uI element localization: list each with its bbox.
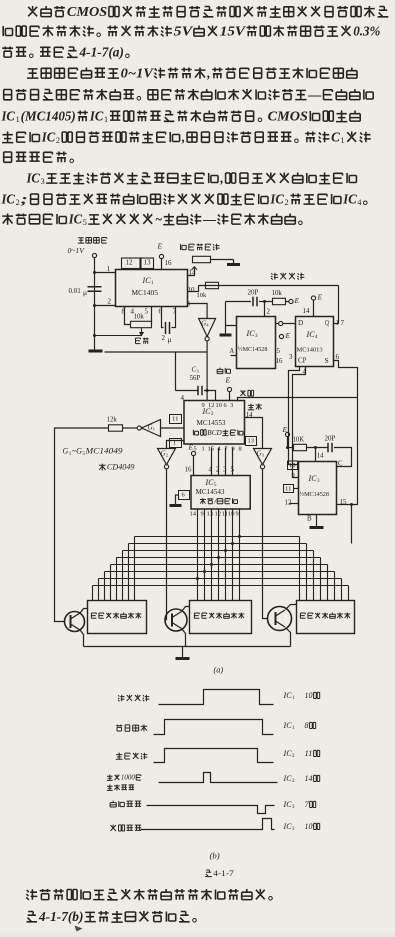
ground G4b [310,526,324,529]
potentiometer zero-adjust 10k [131,321,152,327]
flip-flop IC4 MC14013 [296,317,334,367]
pin 11 label IC5 bottom [222,510,229,517]
pin 10 label IC5 bottom [228,510,235,517]
label 0~1V [68,246,86,255]
capacitor 0.01u [88,287,102,292]
svg-text:14: 14 [303,307,311,315]
svg-text:½MC14528: ½MC14528 [238,346,267,353]
svg-text:E: E [156,242,162,251]
waveform trace5 IC3 pin7 [147,806,275,814]
svg-text:(b): (b) [210,851,220,861]
label E4 [284,331,290,340]
node: analog input label [78,238,107,244]
svg-text:2: 2 [285,198,289,207]
LED display DS3 [297,601,355,634]
LED display DS2 [190,601,252,634]
svg-text:10: 10 [216,402,223,409]
pin 15 label IC2 bottom [208,445,215,452]
capacitor 20P (C2) [253,297,257,307]
pin 14 label IC4 [303,307,311,315]
pin 9 label IC5 bottom [236,510,239,517]
label trace1 ramp control [118,695,149,702]
pin 2 label IC3a [267,308,271,316]
svg-text:1: 1 [341,136,345,145]
pin 14 label IC5 bottom [190,510,197,517]
pin box 10 IC3b [288,461,298,470]
scan smudge [75,926,83,932]
bus drop display3 seg5 [327,565,329,601]
svg-text:C: C [331,129,340,144]
bus drop display1 seg7 [98,579,100,601]
wire pin15 down [351,505,353,544]
wire E6 to IC2 pin6 [229,392,231,401]
pin 15 label IC3b [340,498,348,506]
bus line 8 [93,585,349,587]
wire IC3b gnd stem [316,515,318,527]
waveform trace4 IC2 pin14 [159,773,278,783]
bus drop display1 seg8 [92,586,94,601]
svg-text:IC: IC [282,721,292,730]
wire input lower [94,273,96,306]
svg-text:0~1V: 0~1V [121,65,155,80]
wire lineB to IC3a left [226,302,237,326]
wire IC5 segment 4 to display2 [218,509,220,601]
wire IC4 S loop [334,361,358,398]
wire ramp control line [199,285,339,287]
svg-text:3: 3 [197,369,199,374]
pin 1 label [107,265,111,273]
svg-text:;: ; [21,191,28,206]
wire IC4 CP to IC3b pin10 [289,367,300,465]
bus drop display1 seg4 [116,558,118,601]
wire Q2 base [165,619,167,621]
svg-text:12: 12 [208,402,215,409]
wire G2 to Q2 base [166,469,168,620]
wire 20P to C pin [334,448,352,467]
svg-text:1: 1 [202,445,205,452]
pin 14 label IC3b [317,452,325,460]
terminal E1 [159,254,163,258]
ground G5 [170,504,182,507]
pin 7 label [173,308,177,316]
svg-text:2: 2 [162,334,166,342]
pin 14 label IC2 [246,411,254,419]
svg-text:13: 13 [248,437,255,444]
svg-text:8: 8 [239,445,242,452]
wire reset down to pin15 [337,398,358,505]
pin 10 label [188,286,196,294]
wire stub 12 [290,503,299,505]
svg-text:2: 2 [166,453,168,458]
svg-text:9: 9 [236,510,239,517]
svg-text:4: 4 [209,466,213,474]
terminal Q IC3a [279,321,283,325]
svg-text:IC: IC [305,330,315,339]
bus line 7 [99,578,342,580]
wire pin3 to G4 [188,304,208,319]
wire pin7 to cap [172,307,176,328]
label IC1 10pin [282,691,319,701]
wire IC2 to G2 [167,441,185,449]
svg-text:1: 1 [107,265,111,273]
capacitor 20P right [328,443,332,453]
pin 5 label IC3a [277,347,281,355]
resistor 10k ramp [206,282,219,288]
svg-text:4-1-7: 4-1-7 [213,868,234,878]
wire pin10 to ramp line [188,286,199,292]
potentiometer full-scale 滿度 [193,256,211,262]
svg-text:4-1-7(a): 4-1-7(a) [78,44,123,59]
svg-text:G: G [257,450,262,458]
svg-text:~: ~ [155,211,162,226]
wire emitter bus [84,646,291,648]
pin 1 label IC4 [336,319,340,327]
svg-text:A: A [230,347,235,355]
pin B label IC3b [307,514,312,523]
wire pot gnd stem [233,260,235,264]
label E5 [281,425,287,434]
figure caption 4-1-7 [205,868,234,878]
ground G2 [227,263,240,266]
wire IC2 to G1 [161,427,185,429]
wire IC5 segment 6 to display2 [232,509,234,601]
svg-text:0~1V: 0~1V [68,246,86,255]
wire pin5 to pot [151,307,153,325]
pin 8 label [122,308,126,316]
wire pin14 to pot wiper [188,267,195,276]
wire E5 to 10K [288,447,294,449]
svg-text:56P: 56P [190,374,201,382]
svg-text:IC: IC [41,129,56,144]
label full-scale adjust [181,244,220,251]
pin 2 label [108,298,112,306]
pin 13 label IC5 bottom [207,510,214,517]
transistor Q2 [165,609,187,631]
svg-text:IC: IC [282,822,292,831]
resistor 10K right [294,444,307,450]
bus drop display1 seg2 [128,544,130,601]
bus line 4 [117,557,321,559]
label IC2 11pin [282,749,319,759]
bus drop display3 seg8 [348,586,350,601]
svg-text:G: G [201,320,206,328]
inverter G2 [158,449,176,469]
label E2 [293,296,299,305]
svg-text:IC: IC [282,800,292,809]
wire Q2 emitter [182,629,186,647]
pin 7 label IC2 bottom [225,445,229,452]
note G1~G5 MC14049 [63,447,135,472]
svg-text:1: 1 [16,115,20,124]
wire line B left [226,301,252,303]
svg-text:16: 16 [185,466,193,474]
wire Q3 collector [286,605,297,610]
wire E3 to IC4 [313,300,315,317]
terminal E6 [227,387,231,391]
pin 16 label IC3a [276,357,284,365]
label C3 [192,366,199,374]
svg-text:4-1-7(b): 4-1-7(b) [38,909,83,924]
svg-text:10K: 10K [293,436,305,444]
bus drop display3 seg6 [334,572,336,601]
svg-text:MC1405: MC1405 [132,288,159,297]
wire 10K to 20P [307,447,328,449]
svg-text:16: 16 [276,357,284,365]
bus drop display1 seg5 [110,565,112,601]
pin box 11 IC2 [170,415,182,424]
svg-text:7: 7 [341,319,345,327]
label trace3 count control [116,753,148,760]
resistor 10k line B [273,298,286,304]
bus drop display3 seg7 [341,579,343,601]
wire left rail to Q1 base [55,428,109,622]
wire to IC1 pin1 [95,272,116,274]
wire pin8 to pot [125,307,131,325]
pin 9 label IC5 bottom [201,510,204,517]
wire reset line [238,398,358,401]
svg-text:IC: IC [282,691,292,700]
svg-text:Q: Q [325,318,329,327]
inverter G3 [254,449,272,469]
svg-text:,: , [206,65,210,80]
svg-text:9: 9 [201,510,204,517]
svg-text:E: E [293,296,299,305]
svg-text:2: 2 [267,308,271,316]
svg-text:IC: IC [89,108,104,123]
label 2u [162,334,166,342]
wire IC5 segment 5 to display2 [225,509,227,601]
wire IC5 segment 2 to display2 [204,509,206,601]
svg-text:10: 10 [305,691,313,700]
pot wiper arrow [192,267,198,271]
wire Q3 emitter [286,628,291,647]
svg-text:3: 3 [223,466,227,474]
wire pot to ground [211,259,234,261]
label 10K right [293,436,305,444]
svg-text:12k: 12k [107,416,118,424]
pin box 13 IC2 [246,437,257,446]
svg-text:11: 11 [305,749,313,758]
pin 4 label IC5 [209,466,213,474]
svg-text:IC: IC [204,478,214,487]
svg-text:,: , [219,170,223,185]
wire G3 to transistor Q3 base [263,469,268,619]
decoder IC5 MC14543 [191,476,250,510]
label zero adjust [136,338,149,344]
svg-text:3: 3 [289,353,293,361]
pin box 13 [141,258,154,269]
svg-text:15V: 15V [220,23,247,38]
svg-text:9: 9 [202,402,205,409]
svg-text:μ: μ [168,335,172,344]
svg-text:14: 14 [190,510,197,517]
pin box 11 IC3b [284,485,294,493]
svg-text:3: 3 [187,300,191,308]
resistor 12k left [109,425,123,431]
svg-text:3: 3 [230,402,233,409]
pin 3 label IC4 [289,353,293,361]
svg-text:9: 9 [292,472,295,479]
svg-text:4: 4 [357,198,361,207]
wire G1 out to 12k [123,427,138,429]
pin 1 label IC2 bottom [202,445,205,452]
pin 5 label IC2 bottom [194,445,197,452]
svg-text:15: 15 [340,498,348,506]
pin 9 label IC3b [292,472,295,479]
bus drop display1 seg1 [134,537,136,601]
pin 14 label [189,269,197,277]
wire IC5 segment 7 to display2 [239,509,241,601]
svg-text:12: 12 [285,499,293,507]
svg-text:2: 2 [108,298,112,306]
pin 4 label IC2 bottom [218,445,222,452]
pin box 1 IC2 [170,439,182,448]
wire ramp line down to Q [338,286,340,324]
wire IC4 Q out [334,323,339,325]
paragraph: intro text [1,4,389,227]
label ramp control [271,273,304,280]
svg-text:5: 5 [145,308,149,316]
svg-text:8: 8 [305,721,309,730]
svg-text:—: — [307,87,322,102]
wire IC5 segment 1 to display2 [197,509,199,601]
svg-text:0.01: 0.01 [69,287,82,295]
svg-text:0.3%: 0.3% [353,23,380,38]
svg-text:G: G [63,447,69,456]
svg-text:E: E [284,331,290,340]
svg-text:E: E [316,293,322,302]
svg-text:(MC1405): (MC1405) [21,108,76,123]
label 56P [190,374,201,382]
svg-text:11: 11 [285,485,292,492]
inverter G4 [199,319,216,341]
svg-text:E: E [281,425,287,434]
svg-text:½MC14528: ½MC14528 [300,491,329,498]
wire C3 to cap [176,390,198,392]
ground G3 [220,334,232,337]
svg-text:10: 10 [289,462,296,469]
pin 5 label IC5 [231,466,235,474]
caption (b) [210,851,220,861]
bus drop display1 seg3 [122,551,124,601]
svg-text:10: 10 [228,510,235,517]
pin 8 label IC2 bottom [239,445,242,452]
svg-text:BCD: BCD [207,429,222,437]
ground G6 [176,657,190,660]
paragraph: closing text [26,889,272,924]
bus line 3 [123,550,314,552]
svg-text:MC14543: MC14543 [196,488,225,496]
svg-text:4: 4 [181,394,185,402]
wire IC2 to IC5 [211,448,213,476]
svg-text:CMOS: CMOS [67,4,107,19]
wire E5 down [287,437,289,448]
wire gnd stem [182,647,184,658]
svg-text:2: 2 [16,198,20,207]
svg-text:CMOS: CMOS [268,108,308,123]
svg-text:IC: IC [269,191,284,206]
wire Q2 collector [182,607,190,612]
svg-text:S: S [325,356,329,365]
svg-text:IC: IC [68,211,83,226]
bus drop display3 seg4 [320,558,322,601]
pot wiper [95,328,144,336]
svg-text:5: 5 [231,466,235,474]
caption (a) [214,666,224,675]
label 10k line B [272,289,283,297]
wire to IC3b pin14 [315,448,317,462]
svg-text:12: 12 [215,510,222,517]
wire horizontal under IC1 [105,351,208,353]
svg-text:11: 11 [172,415,179,422]
pin 6 label [159,308,163,316]
svg-text:D: D [298,318,304,327]
wire IC5 segment 3 to display2 [211,509,213,601]
bus line 5 [111,564,328,566]
label IC3 10pin [282,822,319,832]
label trace6 reset pulse [111,825,142,831]
ground G1 [89,350,103,353]
pin 16 label IC5 [185,466,193,474]
wire IC2 to IC5 [225,448,227,476]
svg-text:IC: IC [282,774,292,783]
capacitor C3 56P [198,386,202,396]
op-amp/ADC IC1 MC1405 [116,270,188,307]
wire IC4 pin to IC3b pin9 [293,367,306,478]
wire C3 right to IC2 [204,391,216,401]
waveform trace2 IC1 pin8 [154,720,274,735]
label 0.01u value [69,287,82,295]
svg-text:10: 10 [305,822,313,831]
inverter G1 [137,420,160,437]
svg-text:13: 13 [144,259,152,267]
pin 4 label IC2 [181,394,185,402]
wire stub A [231,355,237,357]
svg-text:(a): (a) [214,666,224,675]
svg-text:14: 14 [246,411,254,419]
wire to IC1 pin2 [95,305,116,307]
wire pin6 to cap [162,307,164,328]
svg-text:—: — [202,211,217,226]
bus drop display3 seg1 [299,537,301,601]
pin 4 label IC4 [303,368,307,376]
input terminal [92,253,96,257]
wire stub 11 [294,488,299,490]
terminal E7 [191,451,195,455]
monostable IC3b half MC14528 [299,462,337,515]
terminal E5 [285,432,289,436]
wire pin14 overflow to G3 [245,418,263,449]
svg-text:IC: IC [1,191,16,206]
label trace4a [107,774,141,782]
svg-text:IC: IC [141,276,151,285]
pin 7 label IC4 Q [341,319,345,327]
label 12k left [107,416,118,424]
svg-text:IC: IC [26,170,41,185]
pin 6 label IC4 [336,353,340,361]
bus drop display3 seg3 [313,551,315,601]
svg-text:G: G [161,450,166,458]
svg-text:2: 2 [56,136,60,145]
svg-text:MC14013: MC14013 [297,346,323,353]
svg-text:10: 10 [188,286,196,294]
wire input vertical [94,258,96,273]
bus line 2 [129,543,307,545]
terminal E4 [279,334,283,338]
svg-text:5V: 5V [174,23,194,38]
wire line B mid [259,301,273,303]
svg-text:14: 14 [305,774,313,783]
